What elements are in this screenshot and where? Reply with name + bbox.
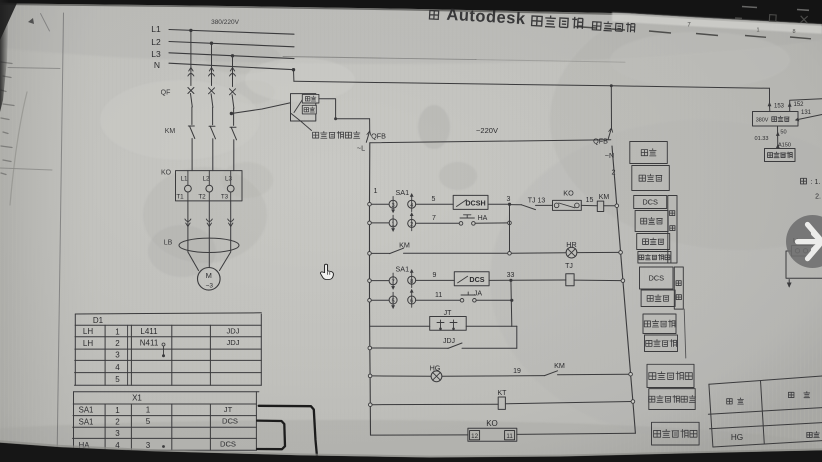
wire rung5 a xyxy=(371,299,389,301)
wire rung2 a xyxy=(371,222,389,224)
wire rung5 b xyxy=(416,299,461,301)
desk / photo bottom edge xyxy=(0,443,822,462)
hand cursor xyxy=(320,264,333,279)
svg-text:KO: KO xyxy=(161,170,172,177)
svg-text:KO: KO xyxy=(563,189,574,198)
wire rung4 a xyxy=(371,280,389,282)
node L3 tap xyxy=(231,54,234,57)
node rung3 right xyxy=(619,251,623,255)
wire rung4 d xyxy=(511,279,566,281)
wire rung1 c xyxy=(488,203,510,205)
svg-text:380/220V: 380/220V xyxy=(211,19,239,26)
wire JDJ rung b xyxy=(462,347,517,349)
svg-text:JDJ: JDJ xyxy=(226,338,239,347)
svg-text:D1: D1 xyxy=(93,316,104,325)
wire junction vertical mid xyxy=(510,280,513,326)
svg-text:50: 50 xyxy=(780,130,786,136)
node rung4 junction xyxy=(509,279,512,282)
wire KT rung to bus xyxy=(505,402,631,404)
wire phase B drop xyxy=(211,43,213,85)
svg-text:19: 19 xyxy=(513,368,521,375)
svg-text:DCS: DCS xyxy=(642,198,658,207)
wire junction vertical upper xyxy=(509,204,511,253)
svg-text:2: 2 xyxy=(115,339,120,348)
svg-text:1: 1 xyxy=(115,327,120,336)
wire JT rung b xyxy=(466,325,512,327)
svg-text:QFB: QFB xyxy=(593,137,608,146)
function box DCS xyxy=(634,196,667,209)
monitor bezel top xyxy=(0,0,822,24)
node N end xyxy=(292,68,295,71)
svg-text:JA: JA xyxy=(474,291,483,298)
svg-text:DCS: DCS xyxy=(648,274,664,283)
svg-text:~3: ~3 xyxy=(206,283,214,290)
svg-text:3: 3 xyxy=(115,351,120,360)
node JDJ rung left xyxy=(368,346,372,350)
merged cell 跳闸 lower xyxy=(674,267,683,309)
svg-text:N: N xyxy=(154,60,160,70)
svg-text:3: 3 xyxy=(146,441,151,450)
wire KO rung a xyxy=(371,434,468,436)
svg-text:33: 33 xyxy=(507,272,515,279)
breaker QF pole B xyxy=(209,88,215,94)
terminal table D1 xyxy=(74,313,261,386)
wire rung3 b xyxy=(404,252,510,254)
node HG rung left xyxy=(368,374,372,378)
svg-text:SA1: SA1 xyxy=(396,188,410,197)
svg-text:KM: KM xyxy=(399,240,410,249)
svg-text:L1: L1 xyxy=(151,24,161,34)
svg-text:JDJ: JDJ xyxy=(443,338,455,345)
wire meter loop xyxy=(786,251,822,278)
flow arrow down xyxy=(788,280,790,287)
svg-text:KM: KM xyxy=(599,194,610,201)
svg-text:JDJ: JDJ xyxy=(226,327,239,336)
selector SA1 contact 5 xyxy=(389,296,397,304)
drawer switch box xyxy=(291,94,316,121)
sheet top border line xyxy=(283,57,476,60)
svg-text:HA: HA xyxy=(478,215,488,222)
svg-text:T2: T2 xyxy=(198,193,206,200)
svg-text:KO: KO xyxy=(486,419,498,428)
svg-text:1: 1 xyxy=(146,406,151,415)
svg-text:T1: T1 xyxy=(176,193,184,200)
svg-text:DCS: DCS xyxy=(220,440,236,449)
svg-text:JT: JT xyxy=(444,310,453,317)
function box 停止绿灯 xyxy=(647,364,694,387)
wire neutral step xyxy=(293,70,295,82)
svg-text:LB: LB xyxy=(164,240,173,247)
photo corner wedge xyxy=(0,2,17,40)
switchgear box 380V开关柜 xyxy=(753,112,799,127)
selector SA1 contact 2 xyxy=(408,219,416,227)
window minimize button xyxy=(735,17,742,19)
svg-text:X1: X1 xyxy=(132,394,142,403)
node L2 tap xyxy=(210,42,213,45)
wire pole B QF to KM xyxy=(212,107,214,125)
svg-text:5: 5 xyxy=(115,375,120,384)
menu bar dashes xyxy=(575,27,811,39)
wire incomer 152 xyxy=(790,99,822,106)
bezel reflection dashes xyxy=(742,7,809,11)
wire rung3 to bus xyxy=(577,251,619,253)
selector SA1 contact 6 xyxy=(408,296,416,304)
bus L2 xyxy=(169,42,294,47)
function box 零序保护 xyxy=(645,335,678,352)
bus ~N control right xyxy=(612,146,635,433)
wire phase A drop xyxy=(190,30,192,85)
function box 运行红灯 xyxy=(638,252,671,264)
function box 保护器电源 xyxy=(652,422,700,445)
wire rung2 c xyxy=(475,222,509,224)
svg-text:DCS: DCS xyxy=(222,416,238,425)
window close button xyxy=(800,16,807,23)
drawout contact marks xyxy=(188,68,236,77)
svg-text:JT: JT xyxy=(224,405,233,414)
bus ~L control left xyxy=(370,143,371,435)
bus N xyxy=(169,63,294,69)
selector SA1 contact 7 xyxy=(389,277,397,285)
wire JT rung a xyxy=(370,325,430,327)
wire drawer switch to QFB xyxy=(319,99,370,119)
wire neutral long run xyxy=(294,81,770,88)
svg-text:152: 152 xyxy=(793,102,804,108)
svg-text:A150: A150 xyxy=(778,143,791,149)
function box 电源 xyxy=(630,142,668,164)
wire rung1 a xyxy=(371,203,389,205)
svg-text:11: 11 xyxy=(435,292,442,299)
function box 现场急停 xyxy=(643,314,676,334)
control button box xyxy=(765,149,796,162)
svg-text:~220V: ~220V xyxy=(476,126,498,135)
drawer switch mini box 1 xyxy=(302,94,319,103)
cable ellipse xyxy=(179,238,239,252)
wire rung1 b xyxy=(416,203,454,205)
column outer line xyxy=(684,309,686,358)
svg-text:3: 3 xyxy=(115,429,120,438)
wire cable to motor left xyxy=(188,240,199,271)
node KT rung left xyxy=(369,403,373,407)
svg-text:N411: N411 xyxy=(140,339,159,348)
svg-text:15: 15 xyxy=(586,197,594,204)
svg-text:7: 7 xyxy=(432,215,436,222)
svg-text:KM: KM xyxy=(165,128,176,135)
svg-text:380V: 380V xyxy=(756,117,769,123)
svg-text:~L: ~L xyxy=(357,144,365,153)
function box 控制电器监视 xyxy=(649,389,695,410)
svg-text:5: 5 xyxy=(432,196,436,203)
svg-text:QF: QF xyxy=(161,90,171,97)
title cell 名称 xyxy=(788,392,794,397)
motor M circle xyxy=(198,268,221,291)
wire rung4 b xyxy=(416,279,455,281)
svg-text:01.33: 01.33 xyxy=(755,136,769,142)
selector SA1 contact 3 xyxy=(389,200,397,208)
title block table xyxy=(708,376,822,447)
svg-text:L3: L3 xyxy=(151,49,161,59)
svg-text:153: 153 xyxy=(774,104,785,110)
svg-text:KM: KM xyxy=(554,361,565,370)
node rung2 junction xyxy=(508,221,512,225)
feeder 131 xyxy=(798,115,822,120)
wire T2 down xyxy=(208,201,210,268)
svg-text:4: 4 xyxy=(115,363,120,372)
merged cell 合用 upper xyxy=(668,196,677,264)
svg-text:9: 9 xyxy=(433,272,437,279)
wire rung2 b xyxy=(416,222,460,224)
svg-text:3: 3 xyxy=(507,196,511,203)
svg-text:TJ 13: TJ 13 xyxy=(528,197,546,204)
node rung3 junction xyxy=(508,252,512,256)
svg-text:LH: LH xyxy=(83,339,93,348)
wire KO rung to bus xyxy=(517,433,636,434)
selector SA1 contact 4 xyxy=(408,200,416,208)
node rung5 junction xyxy=(510,299,513,302)
function box 开关柜 xyxy=(641,290,675,307)
breaker QFB L-pole xyxy=(369,119,371,131)
page curl marks left edge xyxy=(0,62,60,205)
svg-text:1: 1 xyxy=(115,406,120,415)
svg-text:DCS: DCS xyxy=(469,275,484,284)
wire phase C drop xyxy=(232,56,234,87)
notes 注1 xyxy=(801,178,807,184)
D1 jumper pin symbol xyxy=(162,343,165,346)
svg-text:2.: 2. xyxy=(815,194,821,201)
DCS output contact DCS xyxy=(454,272,489,286)
node rung4 right xyxy=(621,279,625,283)
wire rung5 c xyxy=(476,299,512,301)
watermark 由 Autodesk 教育版产品制作 xyxy=(429,5,635,34)
svg-text:11: 11 xyxy=(506,433,513,440)
thermal element A xyxy=(185,185,192,192)
breaker QFB N-pole xyxy=(610,86,612,128)
svg-text:DCSH: DCSH xyxy=(465,199,485,208)
bus L3 xyxy=(169,53,294,59)
thick jumper wire X1 xyxy=(257,421,285,450)
thermal relay KO box xyxy=(176,171,243,201)
wire T3 down xyxy=(230,201,232,240)
wire rung4 c xyxy=(489,279,511,281)
video play overlay xyxy=(786,215,822,268)
thermal element B xyxy=(206,185,213,192)
svg-text:12: 12 xyxy=(471,433,478,440)
svg-text:KT: KT xyxy=(498,390,508,397)
svg-text:: 1.: : 1. xyxy=(811,179,821,186)
svg-text:5: 5 xyxy=(146,417,151,426)
function box DCS xyxy=(640,267,674,289)
svg-text:L1: L1 xyxy=(180,176,188,183)
svg-text:LH: LH xyxy=(83,327,93,336)
wire rung4 to bus xyxy=(574,279,621,282)
svg-text:SA1: SA1 xyxy=(396,265,410,274)
svg-text:L3: L3 xyxy=(225,176,233,183)
svg-text:M: M xyxy=(206,271,212,280)
thick wire X1 to DCS xyxy=(259,406,318,462)
svg-text:L2: L2 xyxy=(151,37,161,47)
bus L1 xyxy=(169,30,294,35)
svg-text:QFB: QFB xyxy=(371,132,386,141)
node HG rung right xyxy=(629,372,633,376)
node rung4 left xyxy=(368,279,372,283)
node rung1 left xyxy=(368,202,372,206)
svg-text:1: 1 xyxy=(756,28,759,34)
node KT rung right xyxy=(631,400,635,404)
wire tap to drawer switch xyxy=(231,103,290,114)
wire HG rung to bus xyxy=(558,373,629,376)
node rung1 right xyxy=(615,204,619,208)
wire junction vertical lower xyxy=(512,325,517,327)
thermal element C xyxy=(227,185,234,192)
node rung3 left xyxy=(368,252,372,256)
node rung5 left xyxy=(368,299,372,303)
wire T1 down xyxy=(187,201,189,240)
function box 开关柜 xyxy=(635,211,668,232)
window titlebar strip xyxy=(612,12,822,33)
cable plug marks xyxy=(185,219,234,227)
selector SA1 contact 1 xyxy=(389,219,397,227)
wire HG rung b xyxy=(442,375,545,378)
wire box to A150 xyxy=(777,126,779,149)
wire rung3 c xyxy=(511,252,566,254)
wire rung1 to bus xyxy=(604,205,615,207)
svg-text:L411: L411 xyxy=(140,327,158,336)
breaker QF pole C xyxy=(230,89,236,95)
svg-text:HG: HG xyxy=(731,433,743,442)
node L1 tap xyxy=(189,29,192,32)
function box 自保持 xyxy=(637,234,670,250)
svg-text:1: 1 xyxy=(374,186,378,195)
label 抽屉位置开关 xyxy=(301,121,312,131)
svg-text:SA1: SA1 xyxy=(79,417,94,426)
svg-text:TJ: TJ xyxy=(565,263,573,270)
svg-text:8: 8 xyxy=(792,29,795,35)
drawer switch mini box 2 xyxy=(302,105,316,114)
DCS output contact DCSH xyxy=(453,195,488,209)
wire cable to motor right xyxy=(220,240,231,271)
node rung2 left xyxy=(368,221,372,225)
svg-text:131: 131 xyxy=(801,110,812,116)
node rung1 junction xyxy=(508,203,511,206)
selector SA1 contact 8 xyxy=(408,276,416,284)
node neutral to QFB xyxy=(610,84,613,87)
wire pole C QF to KM xyxy=(233,108,235,114)
wire 220V top xyxy=(370,140,611,143)
window maximize button xyxy=(769,15,776,22)
function box 熔断器 xyxy=(632,166,670,191)
contactor KM pole A xyxy=(188,125,194,127)
svg-text:T3: T3 xyxy=(221,193,229,200)
title cell 件号 xyxy=(727,399,733,404)
contactor KM pole B xyxy=(209,125,215,127)
node phase C tap xyxy=(230,112,233,115)
svg-text:SA1: SA1 xyxy=(79,406,94,415)
terminal table X1 xyxy=(72,392,259,450)
contactor KM pole C xyxy=(230,126,236,128)
sheet left border line xyxy=(57,13,64,462)
svg-text:2: 2 xyxy=(115,418,120,427)
wire pole A QF to KM xyxy=(191,107,193,125)
wire incomer 153 xyxy=(769,88,771,105)
breaker QF pole A xyxy=(188,88,194,94)
